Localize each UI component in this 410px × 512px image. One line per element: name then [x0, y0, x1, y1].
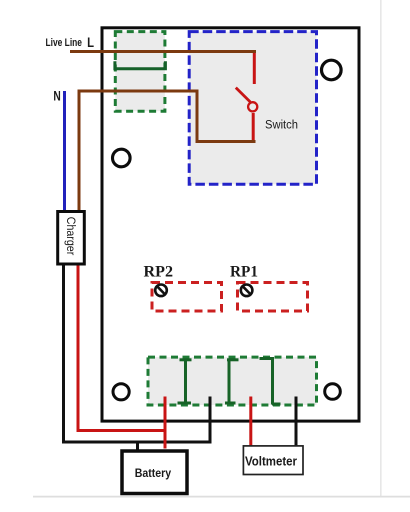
potentiometer RP1 (red dashed box)	[238, 283, 308, 312]
wire switch return brown	[79, 91, 256, 212]
svg-text:Switch: Switch	[265, 119, 298, 131]
charger U1	[58, 212, 85, 265]
svg-text:Charger: Charger	[64, 217, 76, 256]
wire charger negative black	[64, 265, 211, 442]
svg-text:Live Line: Live Line	[46, 37, 83, 49]
wire voltmeter negative black	[295, 397, 298, 446]
wire battery negative stub	[136, 442, 139, 450]
switch pivot	[248, 102, 257, 111]
svg-text:RP2: RP2	[144, 263, 174, 280]
wire switch feed red	[253, 53, 256, 84]
svg-text:N: N	[53, 87, 60, 103]
switch enclosure (blue dashed box)	[189, 32, 316, 185]
fuse holder F1 (green dashed box)	[115, 32, 165, 112]
potentiometer RP2 (red dashed box)	[152, 283, 222, 312]
wire switch output red	[252, 113, 255, 142]
wire live line brown	[70, 50, 256, 53]
battery B1	[122, 451, 187, 494]
mounting hole bottom-right	[325, 384, 341, 400]
svg-text:L: L	[87, 34, 94, 50]
switch blade	[236, 88, 251, 102]
wire voltmeter positive red	[249, 397, 252, 446]
page divider vertical line	[380, 0, 382, 497]
svg-text:Battery: Battery	[135, 466, 172, 480]
mounting hole bottom-left	[113, 384, 129, 400]
fuse element	[115, 61, 165, 69]
svg-text:RP1: RP1	[230, 263, 258, 280]
mounting hole left	[113, 149, 131, 167]
terminal block (green dashed box)	[148, 357, 317, 405]
wire neutral blue	[63, 91, 66, 212]
board outline	[102, 28, 359, 421]
screw adjuster RP1	[241, 285, 253, 297]
page divider horizontal line	[33, 496, 410, 498]
terminal divider 2	[225, 359, 239, 405]
mounting hole top-right	[322, 60, 342, 80]
wire charger positive red	[78, 265, 166, 431]
screw adjuster RP2	[155, 285, 167, 297]
wire battery positive red	[164, 397, 167, 449]
svg-text:Voltmeter: Voltmeter	[245, 454, 297, 469]
terminal divider 1	[178, 359, 192, 404]
voltmeter M1	[243, 446, 303, 475]
terminal divider 3	[260, 358, 281, 405]
